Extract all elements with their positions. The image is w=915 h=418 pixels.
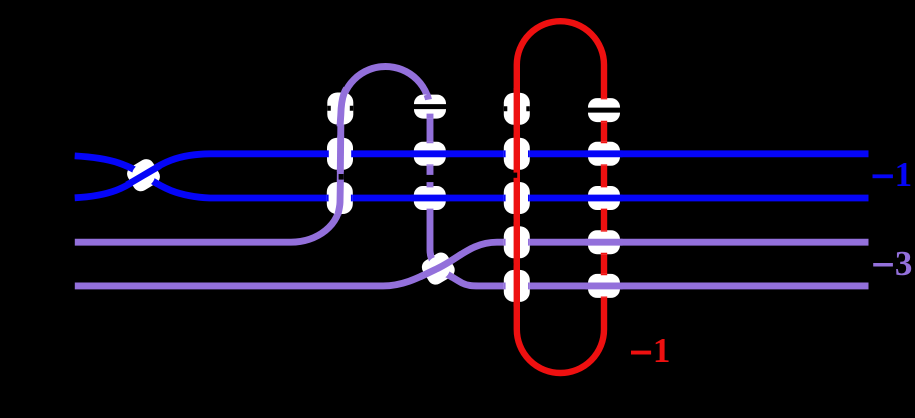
- red -1 framed unknot component (tall rounded loop): [517, 21, 604, 373]
- svg-text:1: 1: [653, 331, 671, 370]
- crossing box 11: red left leg over blue line 2: [504, 178, 530, 219]
- crossing box 7: red left leg over blue line 1: [504, 134, 530, 175]
- seam gap on purple right leg: [426, 175, 434, 182]
- crossing box 3: red left leg over black strand: [504, 88, 530, 130]
- crossing box 1: purple left leg over black strand: [327, 89, 353, 127]
- svg-text:1: 1: [895, 155, 913, 194]
- crossing box 8: blue line 1 over red right leg: [586, 142, 623, 166]
- crossing box 9: purple left leg over blue line 2: [327, 180, 353, 215]
- crossing box 17: blue-blue crossing, strand B over strand A: [75, 156, 210, 198]
- wire: purple diagonal strand P2 (lower-left horizontal rising to upper-right horizontal of -3 component): [75, 242, 869, 286]
- seam nick on purple left leg: [339, 174, 344, 180]
- seam nick on red left leg: [513, 173, 518, 178]
- crossing box 16: purple line 2 over red right leg: [586, 274, 623, 298]
- wire: blue strand A (upper-left end, goes under crossing, becomes lower blue line): [75, 156, 869, 198]
- label -1 (blue framing coefficient): [873, 155, 913, 194]
- label -3 (purple framing coefficient): [873, 244, 912, 283]
- crossing box 10: blue line 2 over purple right leg: [411, 186, 449, 210]
- crossing box 6: blue line 1 over purple right leg: [411, 142, 449, 166]
- label -1 (red framing coefficient): [631, 331, 670, 370]
- crossing box 2: black strand over purple right leg: [412, 95, 449, 119]
- wire: purple main strand P1 (left horizontal, up left leg, cap arc, down right leg, lower-right horizontal): [75, 67, 869, 286]
- crossing box 12: blue line 2 over red right leg: [586, 186, 623, 210]
- crossing box 4: black strand over red right leg: [586, 98, 623, 122]
- crossing box 18: purple diagonal P2 over purple right-leg bend: [419, 250, 479, 288]
- crossing box 15: red left leg over purple line 2: [504, 266, 530, 307]
- wire: blue strand B (lower-left end, goes over crossing, becomes upper blue line): [75, 154, 869, 198]
- crossing box 13: red left leg over purple line 1: [504, 222, 530, 263]
- crossing box 5: purple left leg over blue line 1: [327, 136, 353, 172]
- svg-text:3: 3: [895, 244, 913, 283]
- crossing box 14: purple line 1 over red right leg: [586, 230, 623, 254]
